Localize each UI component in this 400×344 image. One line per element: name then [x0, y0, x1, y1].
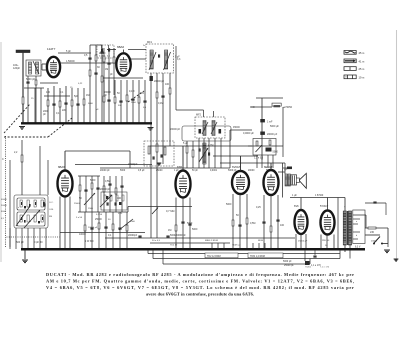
svg-text:25000: 25000 [95, 218, 102, 221]
svg-text:FM: FM [49, 216, 52, 218]
svg-text:TDM 1,2: TDM 1,2 [232, 245, 241, 247]
svg-text:5 e 50: 5 e 50 [76, 217, 83, 219]
svg-text:5000: 5000 [273, 151, 279, 154]
svg-text:50 pF: 50 pF [192, 170, 198, 172]
svg-text:1M: 1M [168, 229, 171, 232]
svg-text:50000: 50000 [1, 199, 8, 201]
svg-text:6V6: 6V6 [294, 204, 299, 208]
svg-text:5000: 5000 [88, 103, 94, 105]
svg-text:0,5M: 0,5M [250, 222, 255, 225]
svg-text:100: 100 [46, 91, 51, 94]
svg-text:5000 pF: 5000 pF [283, 261, 292, 263]
svg-text:25000: 25000 [74, 203, 81, 205]
svg-text:O.C.: O.C. [49, 202, 54, 204]
svg-text:TD2 12: TD2 12 [170, 245, 178, 247]
svg-text:20000: 20000 [371, 241, 378, 243]
svg-text:DUCATI - Mod. RR 4282 e radiof: DUCATI - Mod. RR 4282 e radiofonografo R… [46, 272, 354, 277]
svg-text:AM e 10,7 Mc per FM. Quattro g: AM e 10,7 Mc per FM. Quattro gamme d’ond… [46, 279, 354, 284]
svg-text:5000: 5000 [192, 228, 198, 231]
svg-text:5000: 5000 [90, 179, 96, 182]
svg-text:1 W 500: 1 W 500 [85, 241, 94, 243]
svg-text:5 pF: 5 pF [66, 50, 71, 53]
svg-text:O.M.: O.M. [49, 209, 54, 211]
svg-text:19 m: 19 m [359, 75, 365, 79]
svg-text:1M: 1M [86, 94, 89, 97]
svg-text:20000 μF: 20000 μF [267, 133, 278, 136]
svg-text:41 m: 41 m [359, 59, 365, 63]
svg-text:1M: 1M [105, 69, 108, 71]
svg-text:2000: 2000 [131, 102, 137, 104]
svg-text:50 e 0,5: 50 e 0,5 [152, 240, 161, 242]
svg-text:20000: 20000 [248, 170, 255, 172]
svg-text:0,7 MΩ: 0,7 MΩ [166, 209, 174, 213]
svg-text:45 m: 45 m [359, 51, 365, 55]
svg-text:230: 230 [370, 231, 375, 234]
svg-text:6E5GT: 6E5GT [264, 165, 273, 169]
svg-text:MF1: MF1 [147, 41, 153, 44]
svg-text:76452: 76452 [305, 267, 312, 269]
svg-text:5000: 5000 [226, 203, 232, 206]
svg-text:AP: AP [284, 169, 288, 172]
svg-text:20000 pF: 20000 pF [100, 170, 110, 172]
svg-text:7,1 e 170: 7,1 e 170 [320, 267, 330, 269]
svg-text:RDM: RDM [258, 240, 263, 242]
svg-text:0,1M: 0,1M [158, 102, 163, 105]
svg-text:5pF: 5pF [74, 95, 79, 98]
svg-text:0,0000 μF: 0,0000 μF [243, 132, 254, 135]
svg-text:1500: 1500 [88, 208, 94, 210]
svg-text:1 µF: 1 µF [292, 194, 297, 197]
svg-text:6BA6: 6BA6 [58, 165, 65, 169]
svg-text:1000: 1000 [130, 221, 136, 223]
svg-text:1,50000: 1,50000 [66, 60, 75, 63]
svg-text:100: 100 [117, 197, 122, 200]
svg-text:25000 pF: 25000 pF [298, 241, 308, 243]
svg-text:100: 100 [165, 83, 170, 86]
svg-text:5000/20000 pF: 5000/20000 pF [170, 235, 186, 237]
svg-text:120pF: 120pF [13, 67, 21, 70]
svg-text:1 B 500: 1 B 500 [315, 194, 324, 197]
svg-text:20000 pF: 20000 pF [154, 80, 165, 83]
svg-text:5000: 5000 [120, 170, 126, 172]
svg-text:0,1M: 0,1M [129, 90, 134, 93]
svg-text:25000: 25000 [156, 170, 163, 172]
svg-text:25 m: 25 m [359, 67, 365, 71]
svg-text:12AT7: 12AT7 [47, 47, 56, 51]
svg-text:o: o [18, 207, 19, 209]
svg-text:0,25: 0,25 [256, 206, 261, 209]
svg-text:0,1 50: 0,1 50 [96, 214, 103, 216]
svg-text:20000pF: 20000pF [128, 235, 138, 237]
svg-text:6BA6: 6BA6 [117, 45, 124, 49]
svg-text:5000 pF: 5000 pF [26, 78, 36, 81]
svg-text:20000: 20000 [99, 53, 106, 55]
svg-text:PRL 50: PRL 50 [322, 240, 330, 242]
svg-text:20000 pF: 20000 pF [88, 227, 98, 229]
svg-text:avere due 6V6GT in controfase,: avere due 6V6GT in controfase, precedute… [146, 292, 254, 297]
svg-text:0 pF 30: 0 pF 30 [34, 241, 43, 244]
svg-text:al 5050: al 5050 [284, 105, 293, 109]
svg-text:100: 100 [280, 224, 285, 227]
svg-text:V4 = 6BA6, V5 = 6T8, V6 = 6V6G: V4 = 6BA6, V5 = 6T8, V6 = 6V6GT, V7 = 6E… [46, 285, 354, 290]
svg-text:5000 μF: 5000 μF [270, 125, 279, 128]
svg-text:0,5M: 0,5M [105, 180, 110, 183]
svg-text:TDM 1,2 RDM: TDM 1,2 RDM [250, 256, 265, 258]
svg-text:TD2 12 RDM: TD2 12 RDM [207, 256, 221, 258]
svg-text:MF2: MF2 [196, 114, 202, 117]
svg-text:20000 pF: 20000 pF [100, 188, 111, 191]
svg-text:6T8: 6T8 [177, 165, 182, 169]
svg-text:6BE6 2 RDM: 6BE6 2 RDM [205, 240, 218, 242]
svg-text:o: o [30, 221, 31, 223]
svg-text:6V6GT: 6V6GT [232, 165, 241, 169]
svg-text:20000: 20000 [1, 205, 8, 207]
svg-text:45000: 45000 [233, 126, 240, 129]
svg-text:20000 pF: 20000 pF [170, 128, 181, 131]
svg-text:C: C [2, 158, 4, 161]
svg-text:500 pF: 500 pF [16, 241, 24, 244]
svg-text:10000: 10000 [79, 233, 86, 236]
svg-text:470: 470 [140, 92, 145, 95]
svg-text:25000 pF: 25000 pF [284, 265, 294, 267]
svg-text:220: 220 [62, 109, 67, 112]
svg-text:5 μF: 5 μF [183, 142, 188, 145]
svg-text:0,0001: 0,0001 [210, 170, 218, 172]
svg-text:1 mF: 1 mF [267, 121, 273, 124]
svg-text:0,5 μF: 0,5 μF [138, 170, 145, 172]
